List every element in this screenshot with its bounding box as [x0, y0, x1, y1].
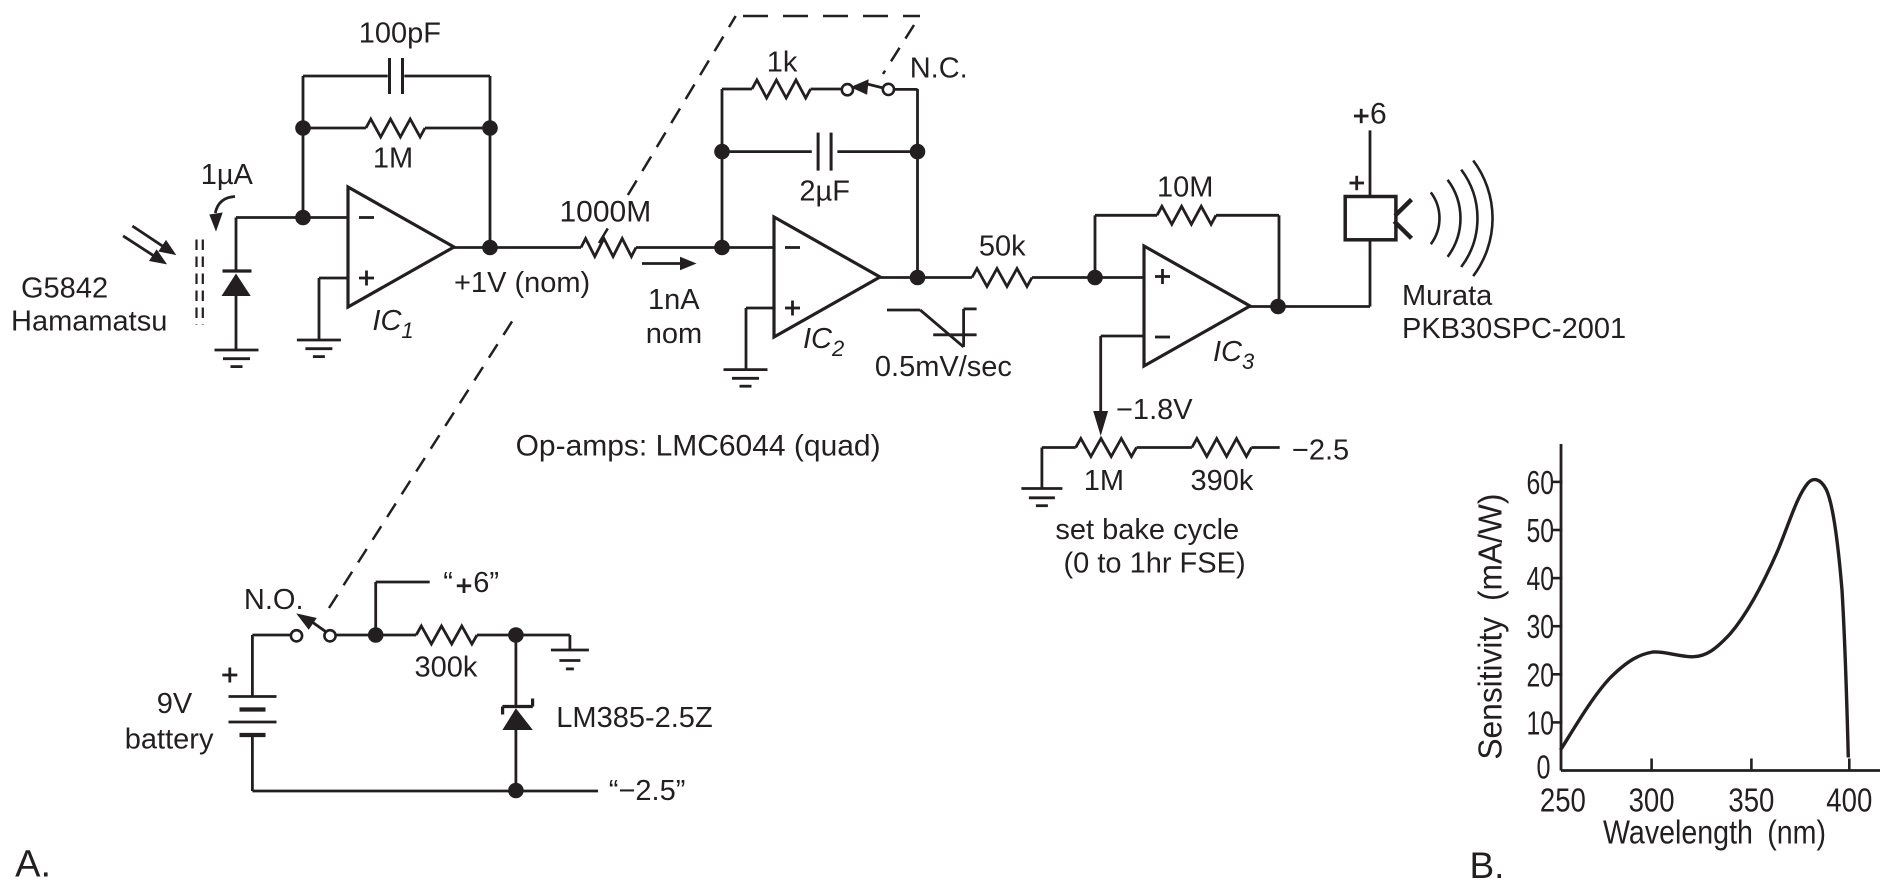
- svg-text:2µF: 2µF: [799, 176, 850, 208]
- svg-text:10M: 10M: [1157, 172, 1213, 204]
- svg-text:N.O.: N.O.: [244, 584, 304, 616]
- svg-text:(0 to 1hr FSE): (0 to 1hr FSE): [1064, 548, 1246, 580]
- svg-text:−2.5: −2.5: [1292, 435, 1349, 467]
- svg-text:1µA: 1µA: [201, 159, 254, 191]
- svg-text:Op-amps: LMC6044 (quad): Op-amps: LMC6044 (quad): [516, 430, 881, 463]
- svg-text:40: 40: [1527, 560, 1555, 597]
- svg-text:1k: 1k: [767, 47, 798, 79]
- svg-text:battery: battery: [125, 724, 214, 756]
- svg-text:60: 60: [1527, 464, 1555, 501]
- svg-text:9V: 9V: [157, 688, 193, 720]
- svg-text:0: 0: [1537, 749, 1551, 786]
- svg-text:“: “: [443, 567, 453, 599]
- svg-text:B.: B.: [1470, 845, 1505, 886]
- svg-text:6”: 6”: [473, 567, 499, 599]
- svg-text:50k: 50k: [979, 231, 1026, 263]
- svg-text:LM385-2.5Z: LM385-2.5Z: [556, 702, 712, 734]
- svg-text:Wavelength (nm): Wavelength (nm): [1603, 814, 1826, 851]
- svg-text:50: 50: [1527, 512, 1555, 549]
- svg-text:1M: 1M: [1084, 465, 1124, 497]
- svg-text:250: 250: [1540, 781, 1586, 818]
- svg-text:100pF: 100pF: [359, 18, 441, 50]
- svg-text:PKB30SPC-2001: PKB30SPC-2001: [1402, 313, 1626, 345]
- svg-text:400: 400: [1826, 781, 1872, 818]
- svg-text:6: 6: [1370, 98, 1387, 131]
- svg-text:1nA: 1nA: [648, 284, 700, 316]
- svg-text:set bake cycle: set bake cycle: [1055, 514, 1239, 546]
- svg-text:390k: 390k: [1191, 465, 1254, 497]
- svg-text:nom: nom: [646, 318, 702, 350]
- svg-text:20: 20: [1527, 656, 1555, 693]
- svg-text:−1.8V: −1.8V: [1116, 394, 1193, 426]
- svg-text:G5842: G5842: [21, 273, 108, 305]
- svg-text:30: 30: [1527, 608, 1555, 645]
- svg-text:1000M: 1000M: [560, 196, 652, 229]
- svg-text:“−2.5”: “−2.5”: [609, 775, 686, 807]
- svg-text:10: 10: [1527, 704, 1555, 741]
- svg-text:1M: 1M: [373, 143, 413, 175]
- svg-text:Sensitivity (mA/W): Sensitivity (mA/W): [1472, 494, 1509, 760]
- svg-text:N.C.: N.C.: [910, 53, 968, 85]
- svg-text:+1V (nom): +1V (nom): [454, 267, 590, 299]
- svg-text:A.: A.: [15, 844, 51, 886]
- svg-text:300k: 300k: [415, 652, 478, 684]
- svg-text:Hamamatsu: Hamamatsu: [11, 306, 167, 338]
- svg-text:Murata: Murata: [1402, 280, 1493, 312]
- svg-text:0.5mV/sec: 0.5mV/sec: [875, 351, 1012, 383]
